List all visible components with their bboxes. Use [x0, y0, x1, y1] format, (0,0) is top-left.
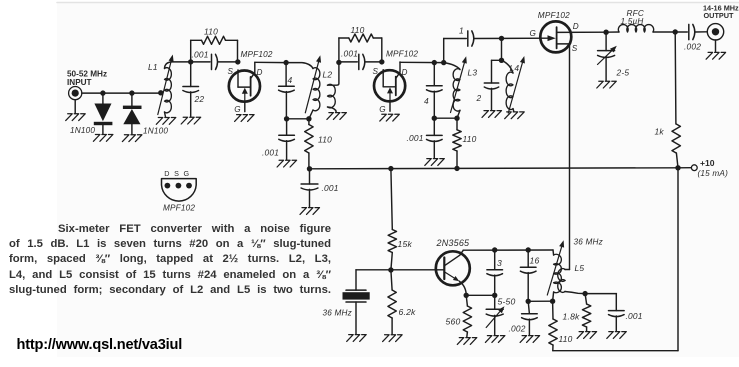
- svg-text:36 MHz: 36 MHz: [574, 237, 603, 246]
- svg-text:S: S: [572, 44, 578, 53]
- svg-text:15k: 15k: [398, 239, 413, 249]
- svg-text:4: 4: [288, 75, 293, 85]
- svg-text:G: G: [234, 105, 241, 114]
- svg-text:G: G: [530, 29, 537, 38]
- svg-text:16: 16: [530, 255, 540, 265]
- svg-text:INPUT: INPUT: [67, 78, 92, 87]
- svg-text:D: D: [573, 22, 579, 31]
- svg-text:2N3565: 2N3565: [436, 238, 471, 248]
- svg-text:S: S: [373, 67, 379, 76]
- svg-text:MPF102: MPF102: [241, 50, 273, 59]
- svg-text:.002: .002: [509, 323, 526, 333]
- svg-text:.001: .001: [262, 148, 279, 158]
- svg-text:(15 mA): (15 mA): [698, 169, 729, 178]
- svg-text:MPF102: MPF102: [163, 204, 195, 213]
- svg-text:.001: .001: [407, 133, 424, 143]
- svg-text:MPF102: MPF102: [386, 49, 418, 58]
- svg-text:.001: .001: [322, 183, 339, 193]
- svg-text:22: 22: [194, 94, 205, 104]
- svg-text:L2: L2: [323, 69, 333, 79]
- svg-text:1N100: 1N100: [70, 126, 95, 135]
- svg-text:+10: +10: [700, 158, 715, 168]
- svg-text:.001: .001: [341, 48, 358, 58]
- svg-text:560: 560: [446, 317, 461, 327]
- svg-text:S: S: [228, 67, 234, 76]
- svg-text:1.8k: 1.8k: [563, 311, 581, 321]
- svg-text:D: D: [257, 68, 263, 77]
- svg-text:L4: L4: [510, 63, 520, 73]
- svg-text:L5: L5: [575, 263, 585, 273]
- svg-text:.002: .002: [684, 41, 701, 51]
- svg-text:.001: .001: [626, 311, 643, 321]
- svg-text:D: D: [402, 68, 408, 77]
- svg-text:110: 110: [463, 134, 477, 144]
- svg-text:110: 110: [204, 27, 218, 37]
- svg-text:110: 110: [351, 25, 365, 35]
- svg-text:G: G: [379, 105, 386, 114]
- svg-text:MPF102: MPF102: [538, 11, 570, 20]
- svg-text:1: 1: [459, 26, 464, 36]
- svg-text:6.2k: 6.2k: [399, 307, 417, 317]
- svg-text:.001: .001: [192, 50, 209, 60]
- svg-text:110: 110: [318, 135, 332, 145]
- svg-text:L1: L1: [148, 62, 158, 72]
- svg-text:OUTPUT: OUTPUT: [704, 11, 735, 20]
- svg-text:2: 2: [476, 93, 482, 103]
- svg-text:3: 3: [497, 258, 502, 268]
- svg-text:L3: L3: [468, 67, 478, 77]
- svg-text:110: 110: [559, 334, 573, 344]
- svg-text:36 MHz: 36 MHz: [323, 309, 352, 318]
- svg-text:D S G: D S G: [164, 169, 189, 178]
- svg-text:1k: 1k: [655, 127, 665, 137]
- svg-text:2-5: 2-5: [616, 67, 630, 77]
- svg-text:1N100: 1N100: [143, 127, 168, 136]
- svg-text:5-50: 5-50: [498, 296, 516, 306]
- svg-text:4: 4: [424, 96, 429, 106]
- svg-text:1.5µH: 1.5µH: [621, 17, 644, 26]
